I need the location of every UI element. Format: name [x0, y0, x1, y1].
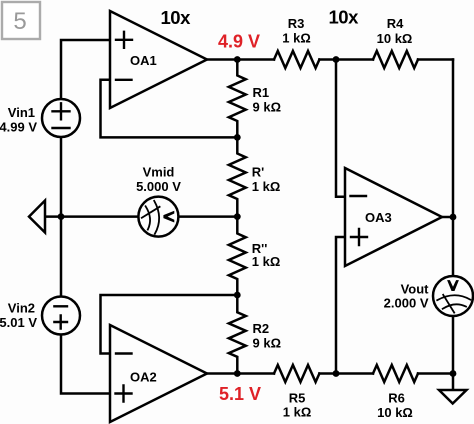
wire right bus down to Vout meter	[452, 60, 455, 277]
svg-text:1 kΩ: 1 kΩ	[252, 179, 280, 194]
svg-text:1 kΩ: 1 kΩ	[252, 254, 280, 269]
svg-text:OA3: OA3	[365, 210, 392, 225]
op-amp OA2	[110, 325, 207, 422]
svg-text:10 kΩ: 10 kΩ	[377, 31, 413, 46]
svg-text:10x: 10x	[329, 7, 360, 28]
svg-text:5.1 V: 5.1 V	[219, 384, 261, 404]
svg-text:10 kΩ: 10 kΩ	[377, 405, 413, 420]
svg-text:10x: 10x	[161, 7, 192, 28]
left bus mid junction dot	[58, 213, 65, 220]
resistor R'	[229, 137, 246, 216]
wire R3 right to node top-mid	[319, 58, 373, 61]
svg-text:5: 5	[13, 8, 26, 35]
wire Vin1 bottom to Vin2 top (left bus)	[60, 137, 63, 297]
resistor R4	[373, 51, 418, 68]
wire OA1 output to node A	[207, 58, 237, 61]
wire mid rail ground to Vmid meter	[45, 215, 138, 218]
node B junction dot	[234, 134, 241, 141]
resistor R5	[274, 365, 319, 382]
top R3/R4 junction dot	[333, 56, 340, 63]
svg-text:Vin1: Vin1	[8, 105, 35, 120]
wire Vmid meter to node C	[178, 215, 237, 218]
svg-text:Vin2: Vin2	[8, 300, 35, 315]
wire OA3 inverting input feeder up to top node	[336, 60, 345, 197]
svg-text:1 kΩ: 1 kΩ	[283, 405, 312, 420]
svg-text:5.01 V: 5.01 V	[0, 315, 37, 330]
voltmeter Vmid	[138, 197, 178, 237]
wire OA2 feedback (inverting input to node D)	[101, 295, 238, 354]
voltage source Vin1	[42, 99, 80, 137]
svg-text:OA2: OA2	[130, 370, 157, 385]
page number box 5	[2, 2, 40, 39]
svg-text:Vout: Vout	[401, 282, 430, 297]
voltage source Vin2	[42, 297, 80, 335]
svg-text:4.99 V: 4.99 V	[0, 120, 37, 135]
bottom R5/R6 junction dot	[333, 370, 340, 377]
svg-text:4.9 V: 4.9 V	[218, 32, 260, 52]
wire node A to R3 left lead	[237, 58, 274, 61]
wire Vin2 bottom to OA2 + input	[61, 335, 110, 394]
voltmeter Vout	[433, 276, 473, 316]
op-amp OA1	[110, 11, 207, 108]
wire OA1 feedback (inverting input to node B)	[101, 80, 238, 138]
svg-text:9 kΩ: 9 kΩ	[253, 100, 282, 115]
op-amp OA3	[345, 168, 442, 266]
svg-text:R1: R1	[253, 85, 270, 100]
wire Vin1 top to OA1 + input	[61, 40, 110, 99]
svg-text:9 kΩ: 9 kΩ	[253, 336, 282, 351]
svg-text:5.000 V: 5.000 V	[136, 179, 181, 194]
svg-text:R': R'	[252, 165, 264, 180]
OA3 output junction dot	[450, 214, 457, 221]
node C junction dot	[234, 213, 241, 220]
wire OA3 output to right bus	[442, 216, 453, 219]
wire OA2 output to node E	[207, 372, 237, 375]
node D junction dot	[234, 292, 241, 299]
wire Vout meter bottom to ground node	[452, 316, 455, 390]
bottom right ground junction dot	[450, 370, 457, 377]
svg-text:R6: R6	[388, 391, 405, 406]
svg-text:R4: R4	[387, 16, 404, 31]
svg-text:2.000 V: 2.000 V	[384, 296, 429, 311]
ground bottom right	[439, 390, 467, 404]
ground flag left (mid rail reference)	[29, 201, 45, 233]
svg-text:Vmid: Vmid	[143, 165, 175, 180]
svg-text:1 kΩ: 1 kΩ	[282, 31, 311, 46]
svg-text:R3: R3	[288, 16, 305, 31]
resistor R1	[229, 60, 246, 138]
wire OA3 non-inverting input feeder down to bottom node	[336, 237, 345, 374]
node E junction dot	[234, 370, 241, 377]
wire R4 right to right bus top	[418, 58, 453, 61]
resistor R6	[373, 365, 418, 382]
node A junction dot	[234, 56, 241, 63]
svg-text:OA1: OA1	[130, 53, 157, 68]
svg-text:R5: R5	[289, 391, 306, 406]
wire node E to R5 left lead	[237, 372, 274, 375]
resistor R3	[274, 51, 319, 68]
wire R6 right to right bus bottom	[418, 372, 453, 375]
resistor R2	[229, 295, 246, 374]
resistor R''	[229, 217, 246, 295]
svg-text:R2: R2	[253, 321, 270, 336]
wire R5 right to bottom-mid node	[319, 372, 373, 375]
